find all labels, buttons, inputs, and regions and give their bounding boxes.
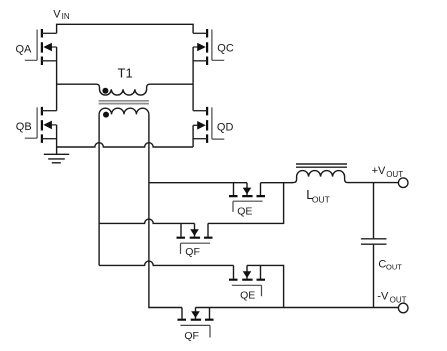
svg-text:QC: QC <box>217 43 234 55</box>
terminal -VOUT <box>398 303 408 313</box>
label +VOUT <box>372 165 404 179</box>
svg-text:QE: QE <box>237 205 252 217</box>
wire row1 LOUT to +VOUT <box>349 182 399 184</box>
wire node QC source to QD drain <box>192 47 194 111</box>
svg-text:T1: T1 <box>118 65 133 80</box>
wire QF source up to row1 <box>208 183 284 224</box>
T1 primary polarity dot <box>102 88 108 94</box>
svg-text:QD: QD <box>217 121 234 133</box>
ground <box>44 154 69 163</box>
transistor QD <box>193 107 224 143</box>
svg-text:QF: QF <box>184 330 199 342</box>
transformer T1 core <box>99 101 149 104</box>
net label VIN <box>53 9 70 22</box>
transistor QC <box>193 29 224 65</box>
T1 secondary polarity dot <box>103 112 109 118</box>
wire row1 QE to LOUT <box>261 182 293 184</box>
wire secondary right lead down <box>149 114 182 307</box>
svg-text:-V: -V <box>377 290 389 302</box>
transistor QE top <box>229 183 265 212</box>
transistor QA <box>25 29 57 65</box>
svg-text:QF: QF <box>185 246 200 258</box>
wire COUT top lead <box>373 183 375 239</box>
transistor QF lower <box>178 308 214 338</box>
wire row3 from secondary left lead <box>99 261 233 265</box>
svg-text:OUT: OUT <box>312 195 330 205</box>
wire secondary left lead down <box>98 114 100 265</box>
transistor QF upper <box>177 223 213 254</box>
wire VIN top rail <box>57 24 194 33</box>
svg-text:QA: QA <box>16 43 33 55</box>
label LOUT <box>306 187 330 204</box>
transformer T1 secondary winding <box>99 108 149 114</box>
inductor LOUT winding <box>291 171 349 183</box>
inductor LOUT core <box>296 164 347 167</box>
wire node QA source to QB drain <box>56 47 58 111</box>
svg-text:IN: IN <box>62 12 70 21</box>
transformer T1 primary winding <box>57 84 194 95</box>
svg-text:QB: QB <box>16 121 32 133</box>
label -VOUT <box>377 290 406 304</box>
transistor QB <box>25 107 57 143</box>
terminal +VOUT <box>398 178 408 188</box>
wire row1 from secondary to QE <box>149 182 247 184</box>
svg-text:OUT: OUT <box>386 170 403 179</box>
wire row2 from secondary left to QF <box>99 219 194 223</box>
wire QE lower source down to row4 <box>247 265 284 307</box>
svg-text:V: V <box>53 9 61 21</box>
transistor QE lower <box>229 265 265 296</box>
wire ground rail with hops <box>57 143 194 147</box>
svg-text:QE: QE <box>240 290 255 302</box>
svg-text:OUT: OUT <box>386 263 402 272</box>
svg-text:+V: +V <box>372 165 386 177</box>
capacitor COUT <box>361 239 387 244</box>
wire row4 to -VOUT <box>196 307 399 309</box>
label COUT <box>378 258 402 271</box>
wire COUT bottom lead <box>373 245 375 308</box>
wire QD source to ground rail <box>192 125 194 147</box>
wire QB source to ground <box>56 125 58 154</box>
